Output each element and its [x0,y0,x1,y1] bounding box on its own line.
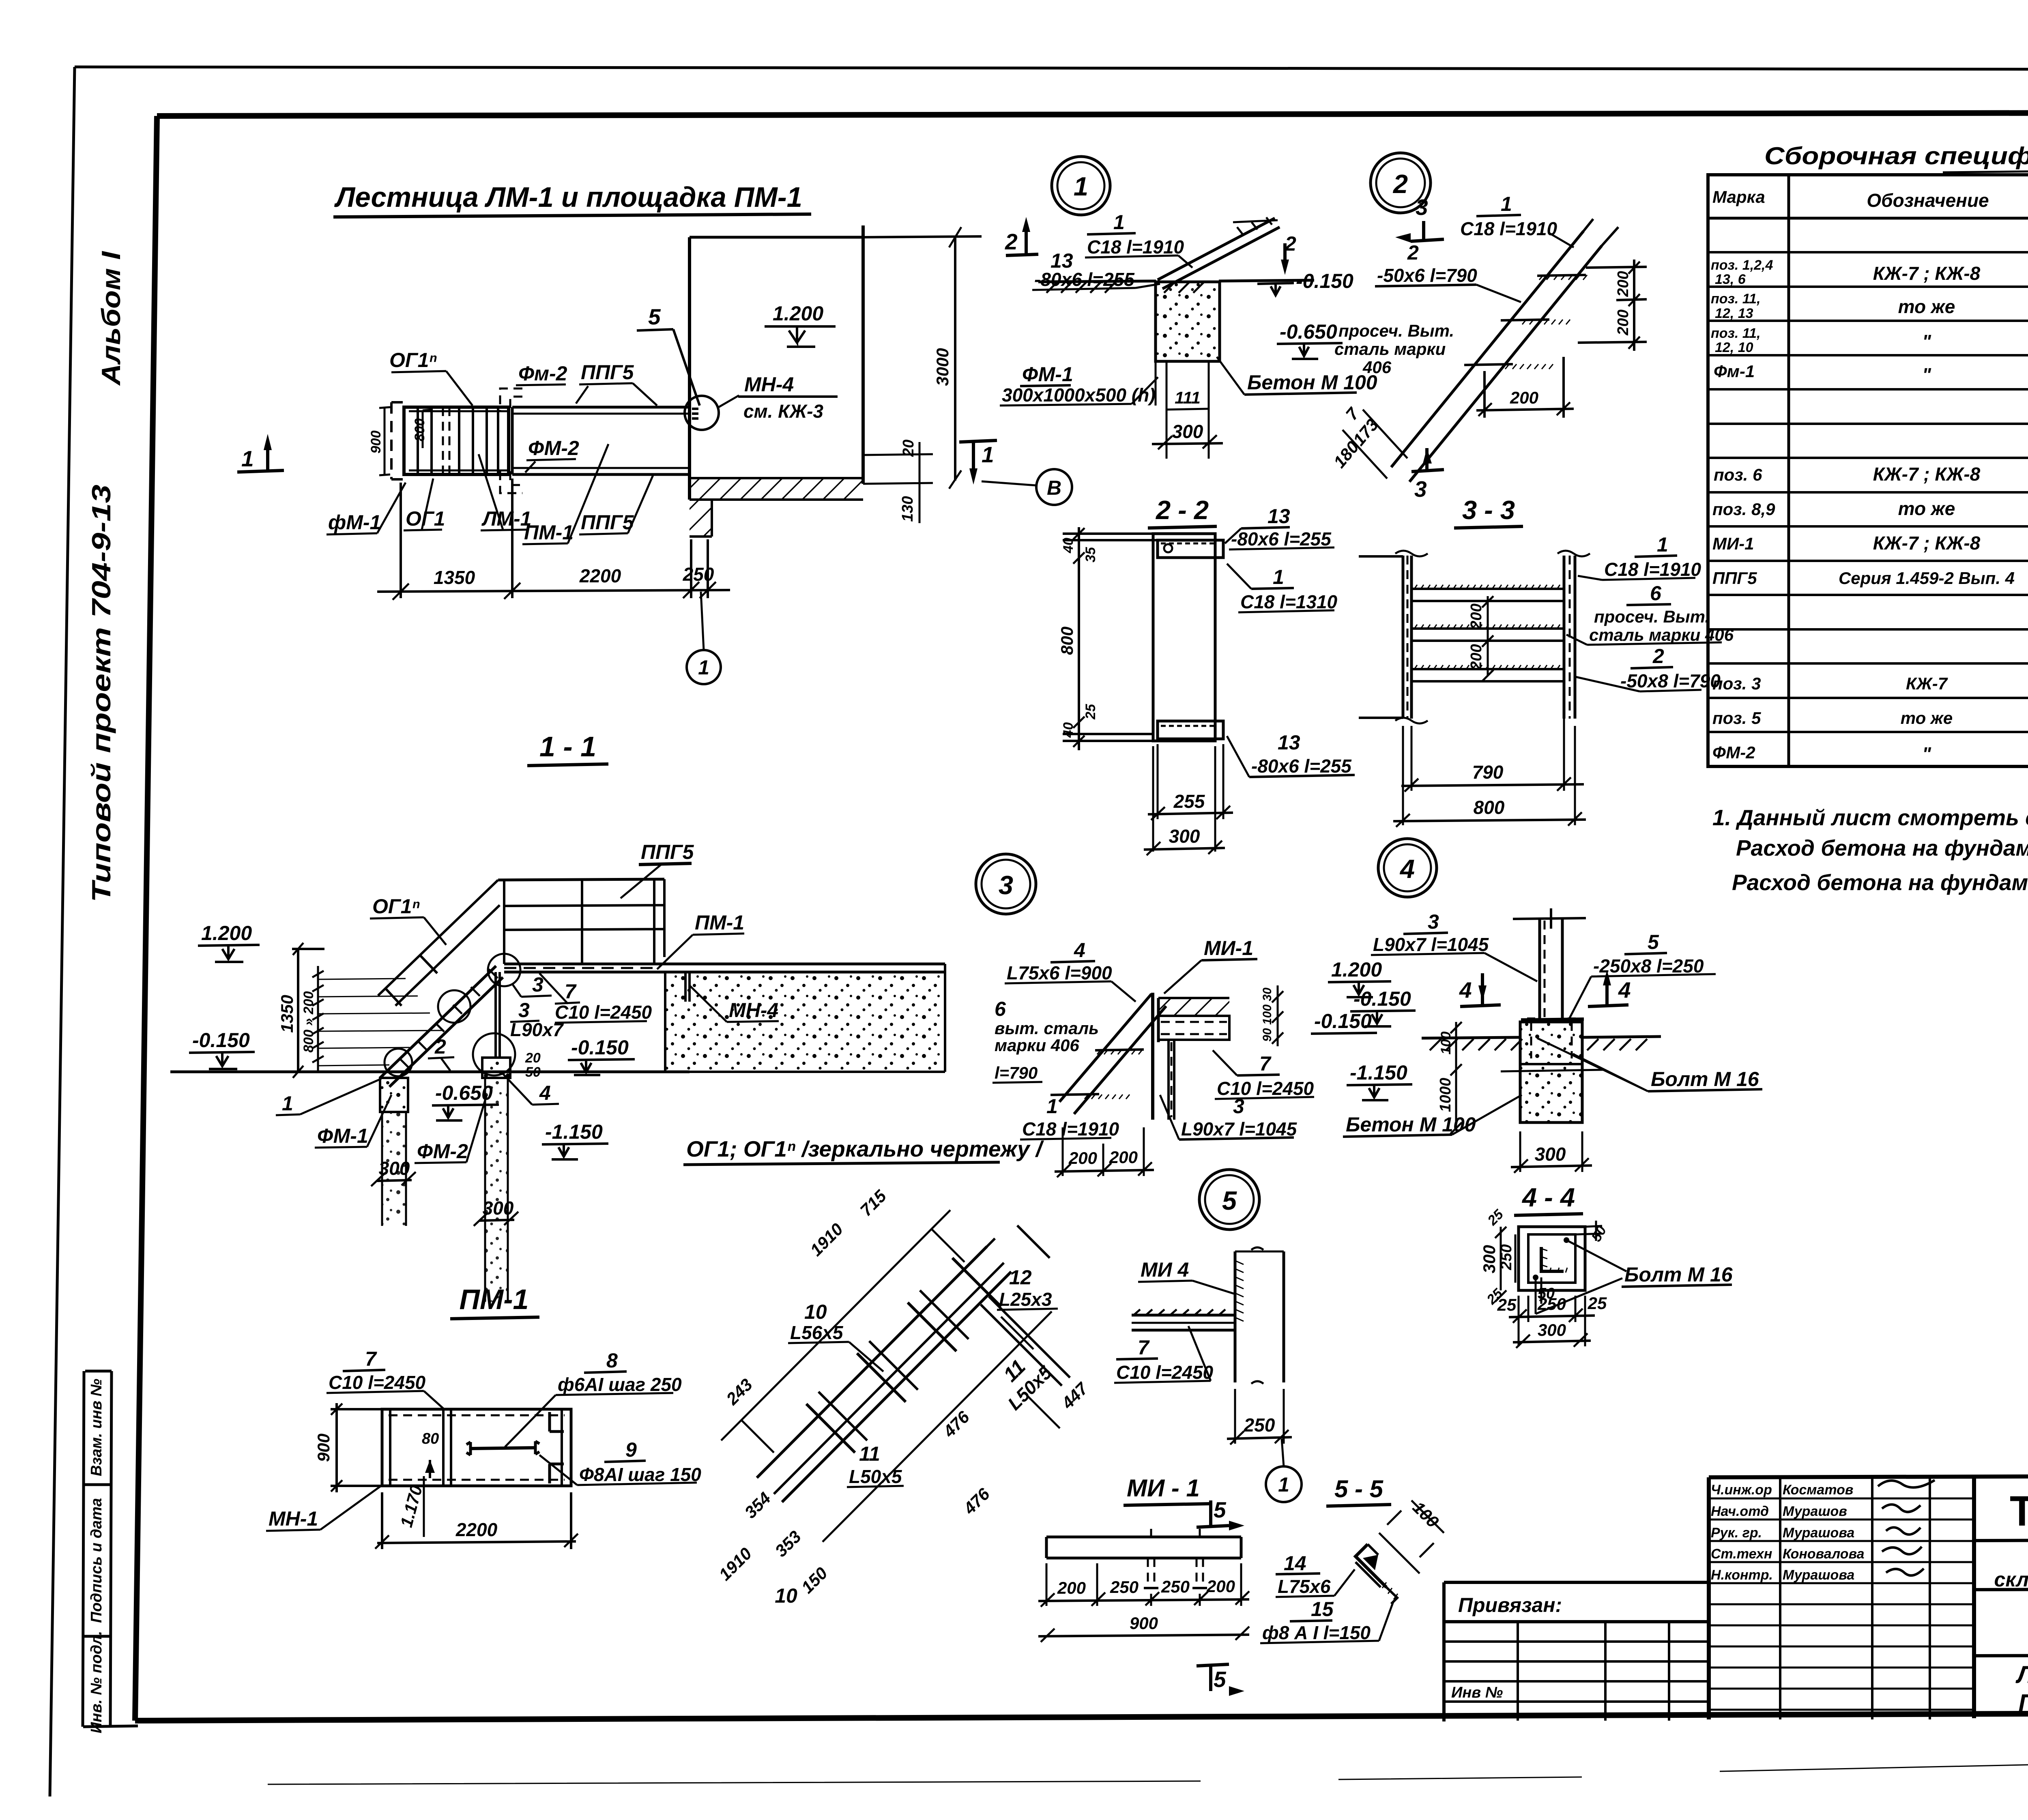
svg-text:8: 8 [606,1349,618,1372]
svg-text:поз. 11,: поз. 11, [1711,326,1761,341]
svg-text:1: 1 [1501,193,1512,215]
svg-text:-0.150: -0.150 [571,1036,629,1059]
svg-text:150: 150 [797,1563,831,1597]
svg-text:Альбом I: Альбом I [96,251,126,386]
svg-text:КЖ-7 ; КЖ-8: КЖ-7 ; КЖ-8 [1873,532,1981,554]
svg-text:l=790: l=790 [995,1063,1038,1082]
svg-text:7: 7 [1342,403,1363,423]
svg-text:3: 3 [999,870,1013,900]
svg-text:5: 5 [1222,1186,1237,1215]
svg-text:Фм-2: Фм-2 [518,362,567,385]
svg-text:-80x6 l=255: -80x6 l=255 [1251,755,1352,777]
svg-text:200: 200 [1615,271,1632,297]
svg-text:3: 3 [518,999,530,1022]
svg-text:МН-4: МН-4 [729,999,778,1022]
svg-text:-0.150: -0.150 [1314,1010,1372,1032]
svg-text:800: 800 [412,419,428,442]
svg-text:ф8 А I l=150: ф8 А I l=150 [1262,1622,1371,1643]
svg-text:300: 300 [1172,421,1203,442]
svg-text:2 - 2: 2 - 2 [1155,495,1209,525]
svg-text:200: 200 [1510,388,1538,407]
svg-text:4: 4 [1399,854,1415,884]
svg-text:ПМ-1: ПМ-1 [695,911,744,934]
svg-text:L25x3: L25x3 [999,1289,1052,1310]
svg-text:С18 l=1910: С18 l=1910 [1604,559,1701,580]
svg-text:поз. 11,: поз. 11, [1711,291,1761,307]
svg-text:5: 5 [1214,1667,1227,1692]
svg-text:ТП 704-9-13 — КЖ: ТП 704-9-13 — КЖ [2010,1487,2028,1535]
svg-text:40: 40 [1061,722,1076,738]
svg-text:-250x8 l=250: -250x8 l=250 [1593,955,1704,977]
svg-text:-0.650: -0.650 [1280,320,1337,343]
svg-text:Косматов: Косматов [1783,1482,1853,1498]
svg-text:1.200: 1.200 [201,922,252,944]
svg-text:200: 200 [1468,644,1485,670]
svg-text:Коновалова: Коновалова [1783,1546,1865,1562]
svg-text:250: 250 [1110,1577,1139,1597]
svg-text:7: 7 [1259,1052,1272,1075]
svg-text:КЖ-7 ; КЖ-8: КЖ-7 ; КЖ-8 [1873,263,1981,284]
svg-text:250: 250 [683,564,714,585]
svg-text:Болт М 16: Болт М 16 [1651,1068,1759,1090]
svg-text:1 - 1: 1 - 1 [539,731,596,762]
svg-text:Обозначение: Обозначение [1867,190,1989,211]
svg-text:1000: 1000 [1437,1078,1454,1112]
svg-text:1350: 1350 [434,567,475,588]
svg-text:5: 5 [648,304,661,329]
svg-text:250: 250 [1498,1244,1515,1270]
svg-text:4: 4 [1074,939,1085,962]
svg-text:1: 1 [1113,211,1125,234]
svg-text:900: 900 [368,431,384,454]
svg-text:255: 255 [1173,791,1205,812]
svg-text:ФМ-1: ФМ-1 [317,1125,368,1147]
svg-text:ПМ-1: ПМ-1 [460,1283,529,1315]
svg-text:-0.150: -0.150 [192,1029,250,1052]
svg-text:Взам. инв №: Взам. инв № [88,1379,105,1476]
svg-text:30: 30 [1261,987,1274,1001]
svg-text:МИ 4: МИ 4 [1141,1258,1189,1281]
svg-text:12: 12 [1009,1266,1032,1289]
svg-text:1350: 1350 [277,995,296,1032]
svg-text:353: 353 [771,1527,805,1560]
svg-text:КЖ-7: КЖ-7 [1906,674,1948,693]
svg-text:200: 200 [1109,1148,1138,1167]
svg-text:ФМ-2: ФМ-2 [528,437,579,459]
svg-text:790: 790 [1472,762,1504,783]
svg-text:": " [1922,743,1931,764]
svg-text:20: 20 [525,1050,541,1066]
svg-text:Марка: Марка [1712,187,1765,206]
svg-text:ПМ-1: ПМ-1 [524,521,574,544]
svg-text:1: 1 [282,1092,293,1115]
svg-text:Мурашова: Мурашова [1783,1525,1854,1541]
svg-text:80: 80 [422,1430,439,1447]
svg-text:С10 l=2450: С10 l=2450 [1217,1078,1314,1099]
svg-text:то же: то же [1898,498,1955,519]
svg-text:250: 250 [1244,1414,1275,1436]
svg-text:Лестница ЛМ-1.: Лестница ЛМ-1. [2015,1661,2028,1688]
svg-text:L75x6: L75x6 [1278,1576,1331,1597]
svg-text:3000: 3000 [933,348,952,386]
svg-text:354: 354 [741,1488,774,1522]
svg-text:Бетон М 100: Бетон М 100 [1247,371,1377,394]
svg-text:800: 800 [1057,627,1076,655]
svg-text:ППГ5: ППГ5 [581,511,634,534]
svg-text:1.200: 1.200 [773,302,823,325]
svg-text:12, 10: 12, 10 [1715,340,1753,355]
svg-text:В: В [1047,476,1061,499]
svg-text:4: 4 [1618,977,1631,1002]
svg-text:5 - 5: 5 - 5 [1334,1475,1384,1502]
svg-text:Типовой проект 704-9-13: Типовой проект 704-9-13 [86,485,116,902]
svg-text:-0.150: -0.150 [1296,270,1353,292]
svg-text:Нач.отд: Нач.отд [1711,1504,1769,1519]
svg-text:L90x7 l=1045: L90x7 l=1045 [1373,934,1489,955]
svg-text:447: 447 [1058,1378,1092,1413]
svg-text:13: 13 [1267,505,1290,528]
svg-text:25: 25 [1083,704,1098,720]
svg-text:300: 300 [483,1198,514,1219]
svg-text:-1.150: -1.150 [1350,1061,1407,1084]
svg-text:ф6АI шаг 250: ф6АI шаг 250 [558,1374,682,1395]
svg-text:Лестница ЛМ-1 и площадка ПМ-1: Лестница ЛМ-1 и площадка ПМ-1 [334,181,802,213]
svg-text:выт. сталь: выт. сталь [995,1019,1099,1038]
svg-text:243: 243 [722,1375,756,1408]
svg-text:ФМ-2: ФМ-2 [417,1140,468,1163]
svg-text:поз. 5: поз. 5 [1712,708,1761,728]
svg-text:Рук. гр.: Рук. гр. [1711,1525,1762,1541]
svg-text:1.200: 1.200 [1331,958,1382,981]
svg-text:поз. 8,9: поз. 8,9 [1712,500,1775,519]
svg-text:-50x8 l=790: -50x8 l=790 [1620,670,1721,691]
svg-text:С10 l=2450: С10 l=2450 [555,1002,652,1023]
svg-text:800: 800 [1474,797,1505,818]
svg-text:130: 130 [899,496,916,522]
svg-text:2: 2 [1005,229,1018,254]
svg-text:поз. 6: поз. 6 [1714,465,1762,484]
svg-text:Подпись и дата: Подпись и дата [88,1498,105,1623]
svg-text:3: 3 [1416,195,1428,220]
svg-text:Болт М 16: Болт М 16 [1624,1263,1733,1286]
svg-text:марки 406: марки 406 [995,1036,1079,1055]
svg-text:Сборочная спецификация на о: Сборочная спецификация на один элемент [1764,142,2028,170]
svg-text:ППГ5: ППГ5 [581,361,634,384]
svg-text:С18 l=1310: С18 l=1310 [1240,591,1338,612]
svg-text:13: 13 [1278,731,1300,754]
svg-text:3 - 3: 3 - 3 [1462,495,1515,525]
svg-text:L90x7 l=1045: L90x7 l=1045 [1181,1118,1298,1140]
svg-text:2: 2 [1407,241,1419,264]
svg-text:1: 1 [1278,1473,1289,1496]
svg-text:Инв. № подл.: Инв. № подл. [88,1631,105,1734]
svg-text:Фм-1: Фм-1 [1714,362,1755,381]
svg-text:900: 900 [1130,1614,1158,1633]
svg-text:476: 476 [960,1484,994,1518]
svg-text:Н.контр.: Н.контр. [1711,1567,1773,1583]
svg-text:250: 250 [1161,1577,1190,1596]
svg-text:6: 6 [1650,582,1662,605]
svg-text:50: 50 [525,1065,541,1080]
svg-text:100: 100 [1438,1032,1454,1055]
svg-text:90: 90 [1261,1028,1274,1042]
svg-text:715: 715 [856,1186,890,1220]
svg-text:С10 l=2450: С10 l=2450 [1116,1362,1214,1383]
svg-text:Площадка ПМ-1.: Площадка ПМ-1. [2018,1689,2028,1717]
svg-text:Мурашов: Мурашов [1783,1504,1847,1519]
svg-text:Серия 1.459-2 Вып. 4: Серия 1.459-2 Вып. 4 [1839,569,2015,588]
svg-text:35: 35 [1083,547,1098,562]
svg-text:Расход бетона на фундамент Фм: Расход бетона на фундамент Фм-1 - 0.15 м… [1736,835,2028,861]
svg-text:L56x5: L56x5 [790,1322,844,1343]
svg-text:5: 5 [1648,931,1659,953]
svg-text:1: 1 [698,656,709,679]
svg-text:С10 l=2450: С10 l=2450 [329,1372,426,1393]
svg-text:ППГ5: ППГ5 [1712,569,1757,588]
svg-text:-50x6 l=790: -50x6 l=790 [1377,265,1477,286]
svg-text:3: 3 [1428,910,1439,933]
svg-text:С18 l=1910: С18 l=1910 [1460,218,1558,239]
svg-text:25: 25 [1588,1294,1607,1313]
svg-text:-80x6 l=255: -80x6 l=255 [1034,269,1135,290]
svg-text:2200: 2200 [579,565,621,586]
svg-text:200: 200 [1057,1578,1086,1597]
svg-text:11: 11 [859,1442,880,1465]
svg-text:10: 10 [775,1584,797,1607]
svg-text:25: 25 [1484,1206,1507,1229]
svg-text:L75x6 l=900: L75x6 l=900 [1007,962,1112,983]
svg-text:300: 300 [1535,1144,1566,1165]
svg-text:13, 6: 13, 6 [1715,272,1746,287]
svg-text:7: 7 [565,980,577,1003]
svg-text:25: 25 [1497,1295,1517,1314]
svg-text:200: 200 [1068,1148,1097,1168]
svg-text:Расход бетона на фундамент фм: Расход бетона на фундамент фм-2 - 0.10 м… [1732,870,2028,895]
svg-text:ФМ-1: ФМ-1 [1022,363,1073,386]
svg-text:14: 14 [1284,1552,1306,1575]
svg-text:3: 3 [1233,1095,1244,1118]
svg-text:ФМ-2: ФМ-2 [1712,743,1755,762]
svg-text:Мурашова: Мурашова [1783,1567,1854,1583]
svg-text:200: 200 [1615,309,1632,335]
svg-text:ОГ1; ОГ1ⁿ /зеркально чертежу /: ОГ1; ОГ1ⁿ /зеркально чертежу / [686,1136,1044,1161]
svg-text:1: 1 [1046,1095,1058,1118]
svg-text:200: 200 [1206,1577,1235,1596]
svg-text:800 » 200: 800 » 200 [301,991,316,1052]
svg-text:300: 300 [1169,826,1200,847]
svg-text:1910: 1910 [806,1219,846,1260]
svg-text:ППГ5: ППГ5 [641,841,694,863]
svg-text:С18 l=1910: С18 l=1910 [1022,1118,1119,1140]
svg-text:МН-1: МН-1 [269,1507,318,1530]
svg-text:С18 l=1910: С18 l=1910 [1087,236,1184,258]
svg-text:20: 20 [900,440,917,457]
svg-text:200: 200 [1468,603,1485,629]
svg-text:просеч. Выт.: просеч. Выт. [1338,321,1454,340]
svg-text:3: 3 [1414,476,1427,502]
svg-text:-80x6 l=255: -80x6 l=255 [1231,528,1332,549]
svg-text:МИ - 1: МИ - 1 [1127,1474,1200,1502]
svg-text:2: 2 [434,1035,446,1058]
svg-text:просеч. Выт.: просеч. Выт. [1594,607,1710,626]
svg-text:": " [1922,331,1931,352]
svg-text:то же: то же [1901,708,1953,728]
svg-text:МИ-1: МИ-1 [1712,534,1754,553]
svg-text:476: 476 [939,1407,973,1441]
svg-text:1: 1 [1074,172,1088,201]
svg-text:9: 9 [625,1438,637,1461]
svg-text:900: 900 [314,1434,333,1462]
svg-text:7: 7 [1138,1336,1150,1359]
svg-text:то же: то же [1898,296,1955,317]
svg-text:1. Данный лист смотреть совмес: 1. Данный лист смотреть совместно с лист… [1712,805,2028,830]
svg-text:ОГ1ⁿ: ОГ1ⁿ [372,895,420,918]
svg-text:1: 1 [1657,533,1668,556]
svg-text:40: 40 [1061,538,1076,554]
svg-text:сталь марки: сталь марки [1334,339,1446,358]
svg-text:12, 13: 12, 13 [1715,306,1753,321]
svg-text:6: 6 [995,998,1006,1020]
svg-text:Ст.техн: Ст.техн [1711,1546,1772,1562]
svg-text:15: 15 [1311,1598,1334,1620]
svg-text:МИ-1: МИ-1 [1204,937,1253,959]
svg-text:4: 4 [539,1082,551,1104]
svg-text:L50x5: L50x5 [849,1466,902,1487]
svg-text:склада нефтепродуктов емк. 1ты: склада нефтепродуктов емк. 1тыс. куб. м. [1994,1568,2028,1591]
svg-text:1: 1 [1273,566,1284,588]
svg-text:1: 1 [241,446,254,471]
svg-text:2: 2 [1392,169,1408,199]
svg-text:1: 1 [982,442,994,467]
svg-text:5: 5 [1214,1497,1227,1522]
svg-text:2: 2 [1652,645,1664,667]
svg-text:Ч.инж.ор: Ч.инж.ор [1711,1482,1772,1498]
svg-text:Инв №: Инв № [1451,1684,1503,1701]
svg-text:4: 4 [1459,977,1472,1002]
svg-text:50: 50 [1538,1285,1555,1302]
svg-text:7: 7 [365,1348,377,1370]
svg-text:10: 10 [804,1301,827,1323]
svg-text:Привязан:: Привязан: [1458,1594,1562,1616]
svg-text:ОГ1ⁿ: ОГ1ⁿ [389,349,437,371]
svg-text:300: 300 [379,1158,410,1179]
svg-text:МН-4: МН-4 [744,373,794,396]
svg-text:1.170: 1.170 [397,1483,426,1529]
svg-text:см. КЖ-3: см. КЖ-3 [743,401,823,422]
svg-text:поз. 1,2,4: поз. 1,2,4 [1711,258,1773,273]
svg-text:100: 100 [1261,1004,1274,1025]
svg-text:300: 300 [1480,1245,1499,1273]
svg-text:2200: 2200 [455,1519,498,1540]
svg-text:111: 111 [1175,388,1201,407]
svg-text:4 - 4: 4 - 4 [1521,1183,1575,1212]
svg-text:-1.150: -1.150 [545,1120,603,1143]
svg-text:300: 300 [1538,1320,1566,1339]
svg-text:1910: 1910 [715,1544,755,1584]
svg-text:фМ-1: фМ-1 [328,511,381,534]
svg-text:КЖ-7 ; КЖ-8: КЖ-7 ; КЖ-8 [1873,464,1981,485]
svg-text:": " [1922,364,1931,385]
svg-text:-0.150: -0.150 [1353,987,1411,1010]
